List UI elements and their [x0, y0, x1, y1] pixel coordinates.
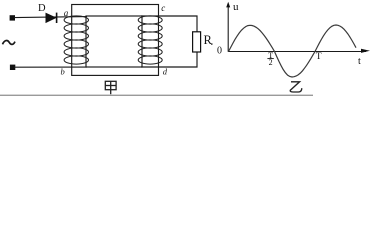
wire secondary bottom (transformer to resistor)	[141, 52, 197, 67]
svg-text:b: b	[61, 66, 65, 76]
svg-text:t: t	[358, 56, 361, 67]
resistor R	[193, 32, 201, 52]
wire top (terminal to transformer)	[14, 17, 87, 18]
svg-text:c: c	[161, 3, 165, 13]
svg-text:2: 2	[269, 58, 273, 67]
svg-text:u: u	[233, 1, 239, 13]
svg-text:R: R	[204, 33, 213, 47]
secondary coil (right winding)	[138, 16, 162, 64]
transformer core outer rectangle	[72, 5, 159, 76]
AC source symbol ~	[3, 41, 16, 45]
svg-text:D: D	[38, 3, 46, 14]
graph u axis (vertical)	[227, 5, 229, 52]
bottom gray rule	[0, 95, 313, 97]
label 甲 (drawn strokes)	[105, 81, 116, 94]
label 乙 (drawn strokes)	[290, 82, 302, 92]
transformer core inner rectangle	[86, 16, 142, 67]
wire bottom (terminal to transformer)	[14, 66, 87, 68]
terminal bottom-left	[10, 65, 15, 70]
graph t axis (horizontal)	[228, 51, 366, 53]
diode D	[46, 13, 56, 23]
primary coil (left winding)	[64, 16, 88, 64]
wire secondary top (transformer to resistor)	[141, 16, 197, 32]
svg-text:d: d	[163, 67, 168, 77]
svg-text:T: T	[316, 52, 322, 62]
terminal top-left	[10, 15, 15, 20]
sine curve u(t)	[229, 25, 357, 77]
svg-text:0: 0	[217, 45, 222, 56]
